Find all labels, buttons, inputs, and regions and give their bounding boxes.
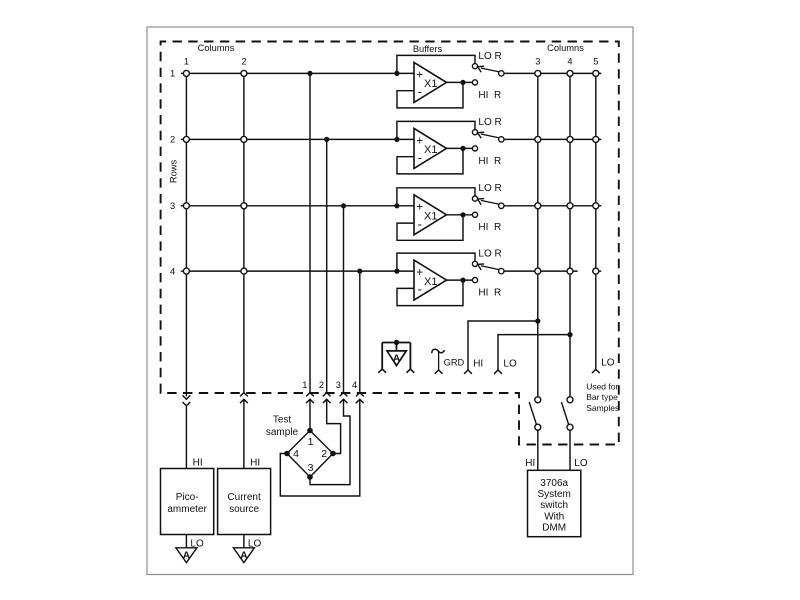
- svg-text:2: 2: [321, 448, 327, 460]
- svg-text:A: A: [393, 353, 401, 365]
- connector chevron pair sample 4 (upper): [356, 393, 364, 397]
- node sample terminal 3: [307, 474, 313, 480]
- svg-text:HI: HI: [250, 458, 260, 469]
- crosspoint col 4 row 2: [567, 136, 573, 142]
- wire LO to column 4: [498, 335, 570, 370]
- svg-text:DMM: DMM: [542, 523, 566, 534]
- wire buffer 3 feedback loop: [397, 215, 463, 241]
- junction buffer 1 input: [394, 71, 399, 76]
- svg-text:Columns: Columns: [547, 43, 584, 53]
- svg-text:HI R: HI R: [478, 90, 501, 101]
- junction row 4 sample tap: [357, 269, 362, 274]
- connector chevron pair sample 1 (upper): [306, 393, 314, 397]
- svg-text:Used for: Used for: [586, 381, 618, 391]
- svg-text:X1: X1: [424, 78, 437, 90]
- crosspoint col 2 row 3: [241, 203, 247, 209]
- svg-text:3: 3: [308, 462, 314, 474]
- connector chevron GRD: [435, 370, 443, 374]
- wire row 3 left segment: [184, 205, 415, 207]
- box 3706a system switch with DMM: [528, 470, 581, 536]
- svg-text:+: +: [416, 69, 423, 81]
- ground A pico-ammeter: [176, 548, 197, 563]
- svg-text:HI: HI: [525, 458, 535, 469]
- svg-text:System: System: [538, 489, 571, 500]
- wire column 2 vertical: [243, 73, 245, 392]
- wire switch S2 (LO) to DMM box: [569, 430, 571, 470]
- svg-text:-: -: [418, 216, 422, 231]
- junction HI on column 3: [535, 318, 540, 323]
- switch S1 (HI) top contact: [535, 397, 541, 403]
- svg-text:LO: LO: [503, 358, 517, 369]
- wire column 2 to current source: [243, 400, 245, 469]
- junction buffer 2 output: [460, 146, 465, 151]
- junction buffer 1 output: [460, 80, 465, 85]
- svg-text:4: 4: [567, 56, 572, 66]
- wire buffer 1 feedback loop: [397, 82, 463, 108]
- crosspoint col 1 row 2: [183, 136, 189, 142]
- crosspoint col 4 row 4: [567, 268, 573, 274]
- junction row 2 sample tap: [324, 137, 329, 142]
- svg-text:-: -: [418, 150, 422, 165]
- svg-text:2: 2: [241, 56, 246, 66]
- wire buffer 3 output: [447, 214, 473, 216]
- terminal LO R circle buffer 2: [472, 130, 477, 135]
- svg-text:3: 3: [170, 201, 175, 211]
- op-amp buffer X1 row 1: [414, 62, 447, 102]
- svg-text:HI R: HI R: [478, 288, 501, 299]
- node sample terminal 4: [284, 451, 290, 457]
- junction buffer 3 input: [394, 203, 399, 208]
- switch S2 (LO) arm: [561, 402, 568, 424]
- svg-text:1: 1: [308, 436, 314, 448]
- svg-text:2: 2: [170, 135, 175, 145]
- svg-text:-: -: [418, 84, 422, 99]
- terminal HI R circle buffer 4: [472, 278, 477, 283]
- crosspoint col 1 row 3: [183, 203, 189, 209]
- svg-text:Rows: Rows: [168, 160, 178, 184]
- wire row 4 stub at col 5: [592, 270, 601, 272]
- crosspoint col 5 row 4: [593, 268, 599, 274]
- svg-text:sample: sample: [266, 427, 299, 438]
- node sample terminal 2: [330, 451, 336, 457]
- crosspoint col 3 row 1: [535, 70, 541, 76]
- wire row 2 right segment: [504, 138, 601, 140]
- svg-text:2: 2: [319, 380, 324, 390]
- svg-text:-: -: [418, 282, 422, 297]
- switch arm with arrow buffer 2: [478, 132, 500, 138]
- svg-text:LO: LO: [574, 458, 588, 469]
- wire sample lead 3: [310, 400, 350, 485]
- connector chevron column 5 LO: [592, 369, 600, 373]
- wire buffer 4 feedback loop: [397, 280, 463, 306]
- connector chevron pair sample 3 (lower): [340, 399, 348, 403]
- switch arm with arrow buffer 1: [478, 66, 500, 72]
- page border frame: [147, 27, 633, 575]
- wire sample lead 1: [309, 400, 311, 431]
- wire row 4 right segment (to col 4): [504, 270, 578, 272]
- wire sample tap 2 vertical: [326, 139, 328, 392]
- junction row 1 sample tap: [307, 71, 312, 76]
- svg-text:HI: HI: [193, 458, 203, 469]
- svg-text:source: source: [229, 504, 259, 515]
- connector chevron pair sample 4 (lower): [356, 399, 364, 403]
- svg-text:4: 4: [293, 448, 299, 460]
- svg-text:Pico-: Pico-: [176, 492, 199, 503]
- row 1 label stub: [181, 72, 184, 74]
- svg-text:1: 1: [184, 56, 189, 66]
- wire row 3 right segment: [504, 205, 601, 207]
- test sample diamond body: [287, 431, 333, 478]
- crosspoint col 2 row 4: [241, 268, 247, 274]
- crosspoint col 3 row 3: [535, 203, 541, 209]
- wire column 5 vertical: [595, 73, 597, 369]
- svg-text:GRD: GRD: [444, 357, 465, 367]
- wire sample tap 4 vertical: [359, 271, 361, 393]
- crosspoint col 4 row 1: [567, 70, 573, 76]
- wire buffer 3 input to LO R switch: [397, 188, 475, 206]
- box pico-ammeter: [161, 469, 214, 535]
- crosspoint col 1 row 1: [183, 70, 189, 76]
- wire buffer 1 output: [447, 81, 473, 83]
- wire row 1 right segment: [504, 72, 601, 74]
- switch arm with arrow buffer 3: [478, 199, 500, 205]
- svg-text:Samples: Samples: [586, 403, 619, 413]
- svg-text:+: +: [416, 267, 423, 279]
- terminal HI R circle buffer 1: [472, 80, 477, 85]
- switch arm with arrow buffer 4: [478, 264, 500, 270]
- svg-text:With: With: [544, 511, 564, 522]
- svg-text:3706a: 3706a: [540, 478, 568, 489]
- wire sample lead 4: [280, 400, 360, 497]
- wire sample tap 3 vertical: [343, 206, 345, 393]
- connector chevron LO: [494, 370, 502, 374]
- svg-text:LO R: LO R: [478, 183, 501, 194]
- wire row 2 left segment: [184, 138, 415, 140]
- terminal LO R circle buffer 1: [472, 64, 477, 69]
- svg-text:X1: X1: [424, 276, 437, 288]
- op-amp buffer X1 row 3: [414, 195, 447, 235]
- switch pivot buffer 4: [499, 268, 504, 273]
- crosspoint col 4 row 3: [567, 203, 573, 209]
- svg-text:+: +: [416, 202, 423, 214]
- junction buffer 3 output: [460, 212, 465, 217]
- svg-text:4: 4: [170, 266, 175, 276]
- switch S1 (HI) arm: [529, 402, 536, 424]
- svg-text:1: 1: [170, 69, 175, 79]
- wire sample tap 1 vertical: [309, 73, 311, 392]
- crosspoint col 2 row 2: [241, 136, 247, 142]
- svg-text:LO R: LO R: [478, 249, 501, 260]
- connector chevron pair column 2 (upper): [240, 393, 248, 397]
- wire row 1 left segment: [184, 72, 415, 74]
- wire row 4 left segment: [184, 270, 415, 272]
- svg-text:X1: X1: [424, 211, 437, 223]
- connector chevron pair sample 2 (lower): [323, 399, 331, 403]
- ground A current source: [233, 548, 254, 563]
- junction buffer 4 output: [460, 278, 465, 283]
- svg-text:LO: LO: [601, 357, 615, 368]
- svg-text:Test: Test: [273, 415, 292, 426]
- wire HI to column 3: [468, 321, 538, 370]
- svg-text:switch: switch: [540, 500, 568, 511]
- svg-text:Bar type: Bar type: [586, 392, 618, 402]
- connector chevron pair sample 2 (upper): [323, 393, 331, 397]
- svg-text:LO R: LO R: [478, 117, 501, 128]
- terminal LO R circle buffer 3: [472, 196, 477, 201]
- wire column 1 to pico-ammeter: [185, 406, 187, 469]
- wire buffer 1 input to LO R switch: [397, 55, 475, 73]
- switch pivot buffer 2: [499, 137, 504, 142]
- switch S2 (LO) bottom contact: [567, 424, 573, 430]
- box current source: [218, 469, 271, 535]
- switch S1 (HI) bottom contact: [535, 424, 541, 430]
- svg-text:ammeter: ammeter: [167, 504, 207, 515]
- wire column 3 vertical: [537, 73, 539, 397]
- row 2 label stub: [181, 138, 184, 140]
- terminal LO R circle buffer 4: [472, 261, 477, 266]
- wire buffer 2 input to LO R switch: [397, 121, 475, 139]
- svg-text:Current: Current: [227, 492, 261, 503]
- connector chevron pair sample 3 (upper): [340, 393, 348, 397]
- svg-text:Columns: Columns: [198, 43, 235, 53]
- svg-text:A: A: [240, 549, 248, 561]
- svg-text:A: A: [183, 549, 191, 561]
- wire buffer 2 output: [447, 147, 473, 149]
- wire switch S1 (HI) to DMM box: [537, 430, 539, 470]
- crosspoint col 5 row 3: [593, 203, 599, 209]
- wire column 1 vertical: [185, 73, 187, 396]
- svg-text:4: 4: [352, 380, 357, 390]
- junction buffer 4 input: [394, 269, 399, 274]
- junction row 3 sample tap: [341, 203, 346, 208]
- wire column 4 vertical: [569, 73, 571, 396]
- connector chevron pair column 1 (lower): [183, 402, 191, 406]
- terminal HI R circle buffer 3: [472, 212, 477, 217]
- node sample terminal 1: [307, 428, 313, 434]
- crosspoint col 3 row 2: [535, 136, 541, 142]
- wire buffer 4 input to LO R switch: [397, 253, 475, 271]
- connector chevron HI: [464, 370, 472, 374]
- wire pico-ammeter LO to ground: [185, 535, 187, 548]
- GRD pigtail symbol: [432, 349, 445, 370]
- svg-text:LO R: LO R: [478, 51, 501, 62]
- svg-text:HI R: HI R: [478, 222, 501, 233]
- ground symbol A (analog guard): [378, 340, 414, 373]
- crosspoint col 3 row 4: [535, 268, 541, 274]
- op-amp buffer X1 row 2: [414, 128, 447, 168]
- junction buffer 2 input: [394, 137, 399, 142]
- switch S2 (LO) top contact: [567, 397, 573, 403]
- svg-text:HI: HI: [473, 358, 483, 369]
- crosspoint col 1 row 4: [183, 268, 189, 274]
- crosspoint col 5 row 1: [593, 70, 599, 76]
- svg-text:Buffers: Buffers: [413, 44, 443, 54]
- dashed guard boundary box: [161, 42, 619, 445]
- junction LO on column 4: [567, 332, 572, 337]
- svg-text:X1: X1: [424, 144, 437, 156]
- switch pivot buffer 1: [499, 71, 504, 76]
- connector chevron pair sample 1 (lower): [306, 399, 314, 403]
- wire buffer 2 feedback loop: [397, 148, 463, 174]
- svg-text:5: 5: [593, 56, 598, 66]
- crosspoint col 5 row 2: [593, 136, 599, 142]
- wire sample lead 2: [327, 400, 341, 454]
- svg-text:HI R: HI R: [478, 156, 501, 167]
- op-amp buffer X1 row 4: [414, 260, 447, 300]
- wire buffer 4 output: [447, 279, 473, 281]
- crosspoint col 2 row 1: [241, 70, 247, 76]
- svg-text:3: 3: [336, 380, 341, 390]
- row 4 label stub: [181, 270, 184, 272]
- connector chevron pair column 1 (upper): [183, 395, 191, 399]
- svg-text:1: 1: [302, 380, 307, 390]
- wire current source LO to ground: [243, 535, 245, 548]
- switch pivot buffer 3: [499, 203, 504, 208]
- connector chevron pair column 2 (lower): [240, 399, 248, 403]
- svg-text:+: +: [416, 135, 423, 147]
- terminal HI R circle buffer 2: [472, 146, 477, 151]
- row 3 label stub: [181, 205, 184, 207]
- svg-text:3: 3: [535, 56, 540, 66]
